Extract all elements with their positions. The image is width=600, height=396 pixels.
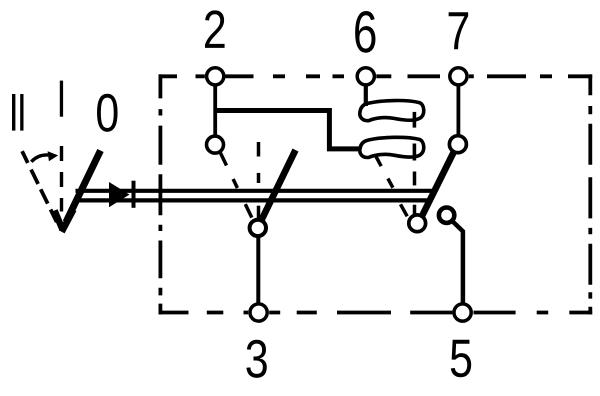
lamp L1 (illumination bulb loop at terminal 6) — [360, 100, 424, 120]
mechanical linkage upper line — [76, 189, 433, 193]
right contact alternate position (dashed diagonal to lamp) — [376, 157, 381, 167]
terminal 3 — [250, 304, 267, 321]
switch housing left edge — [158, 74, 162, 314]
terminal 6 — [357, 68, 374, 85]
lamp L2 contact tick — [413, 144, 417, 161]
linkage direction triangle — [109, 182, 130, 207]
label 7 (terminal number) — [449, 12, 469, 49]
actuator lever arrowhead — [55, 211, 63, 230]
wire contact to terminal 5 (elbow) — [452, 221, 463, 306]
fixed contact under terminal 7 — [449, 136, 466, 153]
motion arc arrow — [31, 155, 48, 162]
terminal 2 — [207, 68, 224, 85]
lamp L1 contact tick — [413, 112, 417, 128]
middle moving contact arm (solid, toward position II) — [262, 150, 296, 220]
moving contact arm (terminal 7 to pivot, position II engaged) — [422, 152, 455, 218]
middle contact alternate position (dashed vertical) — [257, 142, 261, 157]
middle contact alternate position (dashed diagonal to contact 2) — [220, 152, 227, 166]
label I (position I mark) — [60, 81, 63, 117]
terminal 5 — [454, 304, 471, 321]
lamp L2 (bulb loop fed from terminal 2) — [360, 137, 424, 157]
fixed contact under terminal 2 — [207, 136, 224, 153]
label II (position II mark) — [12, 94, 15, 131]
switch housing right edge — [588, 74, 592, 314]
position I indicator (dashed vertical under I) — [60, 146, 63, 161]
wire feed from terminal 2 column to lamp (horizontal) — [215, 111, 360, 149]
wire from terminal 7 down to fixed contact — [456, 80, 460, 140]
actuator lever (solid, position 0) — [66, 151, 101, 223]
right pivot contact — [409, 215, 426, 232]
switch housing (dash-dot enclosure), top edge — [159, 74, 593, 78]
switch housing bottom edge — [159, 311, 593, 315]
label 0 (position 0 mark) — [97, 94, 118, 132]
terminal 7 — [450, 68, 467, 85]
label 5 (terminal number) — [451, 340, 471, 377]
fixed contact near terminal 5 — [439, 208, 454, 223]
wire pivot to terminal 3 — [256, 234, 260, 306]
label 2 (terminal number) — [205, 10, 225, 47]
wire from terminal 6 down to lamp — [364, 80, 368, 106]
linkage stop bar — [132, 181, 136, 208]
right contact alternate position (dashed vertical) — [413, 172, 417, 186]
middle pivot contact — [250, 220, 266, 236]
label 6 (terminal number) — [355, 11, 375, 53]
label 3 (terminal number) — [246, 340, 266, 378]
mechanical linkage lower line — [76, 198, 430, 202]
actuator lever alternate position (dashed, toward II) — [22, 151, 28, 163]
motion arc arrowhead — [48, 151, 59, 161]
wire from terminal 2 down to fixed contact — [213, 80, 217, 140]
